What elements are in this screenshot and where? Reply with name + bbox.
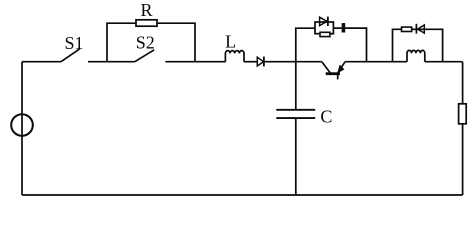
wire capacitor to bottom: [295, 118, 297, 195]
wire L to diode: [244, 61, 257, 63]
svg-text:S1: S1: [64, 33, 83, 53]
wire right vertical: [462, 62, 464, 195]
right block legs and top wire: [393, 29, 443, 61]
transistor VT collector slant: [322, 62, 331, 73]
snubber wire to capacitor: [333, 27, 342, 29]
snubber capacitor: [342, 23, 345, 32]
inductor (right, in main wire): [407, 50, 425, 61]
wire after S2: [165, 61, 225, 63]
svg-text:S2: S2: [136, 33, 155, 53]
snubber diode: [320, 17, 327, 25]
svg-text:R: R: [140, 0, 152, 20]
transistor VT base bar: [326, 72, 340, 75]
wire transistor to right: [345, 61, 407, 63]
svg-text:L: L: [225, 32, 236, 52]
resistor R: [136, 20, 157, 26]
wire bottom: [22, 194, 463, 196]
right block resistor: [402, 27, 412, 31]
snubber rectangle: [315, 22, 333, 34]
svg-text:C: C: [320, 106, 332, 126]
diode VD1: [257, 57, 263, 66]
resistor R branch wires: [107, 23, 195, 62]
switch S1: [61, 49, 80, 62]
wire top left segment: [22, 61, 61, 63]
right block diode (pointing left): [415, 24, 417, 34]
wire node down to capacitor: [295, 62, 297, 110]
source (circle): [11, 114, 33, 136]
wire between S1 and S2: [88, 61, 135, 63]
wire left vertical: [21, 62, 23, 195]
snubber wire right + right leg: [345, 28, 367, 62]
inductor L: [225, 51, 244, 62]
wire diode to node: [265, 61, 322, 63]
capacitor C plates: [276, 110, 315, 118]
load resistor (right edge): [459, 104, 467, 124]
snubber resistor: [320, 32, 330, 36]
switch S2: [135, 50, 154, 62]
transistor VT gate stub: [337, 75, 339, 79]
wire right inductor to corner: [425, 61, 463, 63]
snubber left leg: [296, 28, 315, 62]
transistor VT emitter slant with arrow: [338, 62, 345, 73]
